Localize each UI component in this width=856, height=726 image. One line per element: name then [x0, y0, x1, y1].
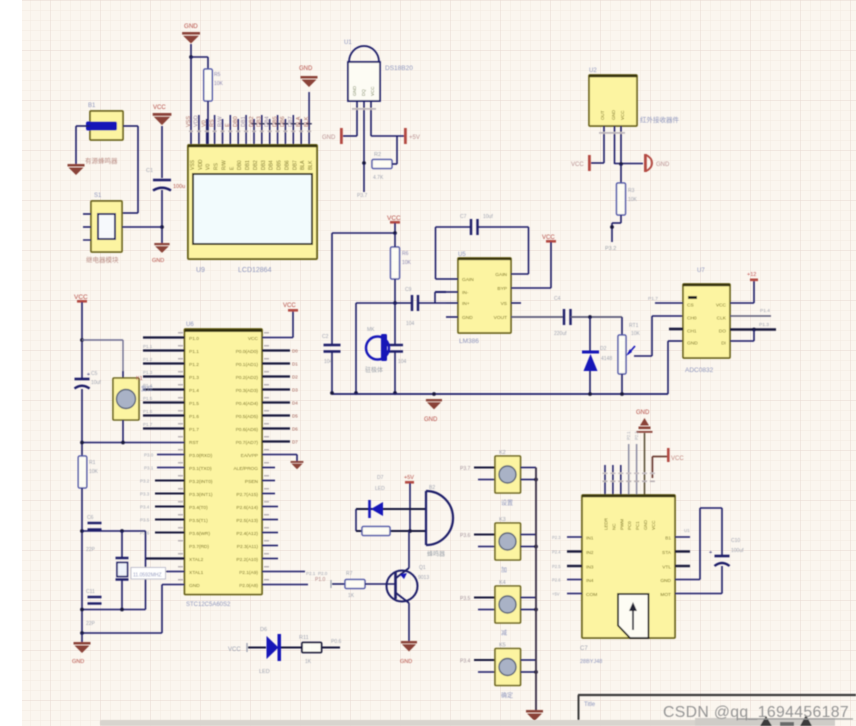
wire C10 bottom path	[721, 566, 723, 594]
svg-text:OUT: OUT	[600, 110, 605, 120]
resistor R1	[78, 456, 87, 488]
button K1 top stem	[122, 371, 124, 378]
svg-text:B2: B2	[429, 485, 435, 491]
ground top middle	[182, 32, 200, 35]
title block top line	[578, 694, 856, 696]
MCU pin numbers	[178, 332, 183, 334]
wire xtal right leg	[145, 531, 147, 610]
microphone MK1	[366, 337, 389, 360]
svg-text:DS18B20: DS18B20	[385, 65, 413, 72]
svg-text:D2: D2	[600, 346, 607, 352]
svg-text:GND: GND	[660, 578, 671, 584]
wire mic loop left	[355, 303, 357, 393]
svg-text:VCC: VCC	[248, 336, 259, 342]
svg-text:P2.2(A10): P2.2(A10)	[236, 557, 258, 563]
svg-text:E: E	[225, 123, 231, 127]
MCU U6 top edge	[185, 329, 263, 332]
svg-text:BLA: BLA	[300, 160, 306, 170]
svg-text:DB0: DB0	[233, 116, 239, 127]
capacitor C5	[75, 378, 90, 381]
DS18B20 pin number band	[352, 108, 376, 110]
svg-text:PWM: PWM	[619, 519, 624, 530]
svg-text:GND: GND	[184, 23, 198, 30]
wire MCU VCC pin	[262, 337, 293, 339]
button K2 wires right	[521, 467, 537, 469]
svg-text:P1.5: P1.5	[143, 396, 153, 401]
svg-text:DO: DO	[719, 329, 726, 335]
svg-text:NC: NC	[611, 523, 616, 530]
junction K5	[534, 670, 538, 674]
svg-text:GND: GND	[189, 583, 200, 589]
svg-text:1K: 1K	[305, 659, 312, 665]
title block left line	[578, 695, 580, 726]
wire opamp pin2 stub	[435, 291, 446, 293]
button K1 cap	[117, 390, 136, 409]
svg-text:P3.6: P3.6	[460, 533, 471, 539]
svg-text:EA/VPP: EA/VPP	[241, 453, 258, 459]
svg-text:P3.4: P3.4	[460, 659, 471, 665]
LCD screen	[193, 174, 312, 244]
wire MCU XTAL1 stub	[165, 571, 185, 573]
svg-text:C6: C6	[87, 515, 94, 521]
svg-text:P3.1(TXD): P3.1(TXD)	[189, 466, 212, 472]
svg-text:P2.0(A8): P2.0(A8)	[239, 583, 258, 589]
svg-text:VCC: VCC	[571, 162, 584, 168]
wire VCC stem mic	[394, 223, 396, 233]
wire VCC to U2	[591, 162, 604, 164]
svg-text:R5: R5	[214, 72, 221, 78]
svg-text:R7: R7	[346, 571, 353, 577]
svg-text:GND: GND	[352, 85, 357, 96]
ground arrow over C1	[153, 113, 172, 116]
svg-text:P1.7: P1.7	[189, 427, 199, 433]
svg-text:LCD12864: LCD12864	[238, 267, 272, 274]
power bar VCC stepper	[667, 448, 670, 462]
svg-text:IN4: IN4	[586, 578, 594, 584]
svg-text:P3.7(RD): P3.7(RD)	[189, 544, 209, 550]
svg-text:CH1: CH1	[687, 329, 697, 335]
diode D7 led	[368, 500, 371, 518]
wire MCU GND pin	[162, 584, 185, 586]
svg-text:P2.4(A12): P2.4(A12)	[236, 531, 258, 537]
wire res row	[356, 530, 426, 532]
wire ADC DI	[730, 340, 754, 342]
svg-text:IN2: IN2	[586, 550, 594, 556]
junction R6 top	[393, 231, 397, 235]
svg-text:P1.7: P1.7	[143, 422, 153, 427]
op-amp left pin stubs	[446, 278, 458, 280]
svg-text:VCC: VCC	[716, 303, 727, 309]
svg-text:VCC: VCC	[153, 105, 166, 111]
svg-text:22P: 22P	[86, 621, 96, 627]
svg-text:R11: R11	[299, 635, 309, 641]
svg-text:P3.4(T0): P3.4(T0)	[189, 505, 208, 511]
wire MCU P3 group	[155, 479, 185, 481]
svg-text:B1: B1	[665, 536, 671, 542]
wire R6 stems	[394, 233, 396, 247]
junction xtal top	[80, 529, 84, 533]
wire buzzer left pin	[76, 125, 90, 127]
svg-text:DB6: DB6	[280, 116, 286, 127]
stepper left pin wires	[567, 536, 582, 538]
svg-text:VOUT: VOUT	[494, 315, 507, 321]
svg-text:P3.2: P3.2	[605, 246, 616, 252]
svg-text:P1.5: P1.5	[189, 401, 199, 407]
power bar GND left	[340, 128, 343, 144]
svg-text:确定: 确定	[501, 692, 513, 700]
svg-text:CH0: CH0	[687, 316, 697, 322]
svg-text:减: 减	[501, 629, 507, 637]
svg-text:VCC: VCC	[651, 520, 656, 530]
svg-text:DB5: DB5	[272, 116, 278, 127]
power bar VCC mic	[390, 221, 400, 224]
wire crystal bottom	[121, 580, 123, 610]
capacitor C9 series	[411, 295, 413, 311]
wire R3 bottom	[620, 215, 622, 223]
wire DS18B20 vcc	[371, 135, 404, 137]
ADC U7 body	[683, 284, 730, 358]
svg-text:P1.6: P1.6	[189, 414, 199, 420]
label box 11.0592MHZ	[131, 568, 166, 580]
stepper U8 top edge	[582, 495, 675, 497]
svg-text:COM: COM	[586, 592, 597, 598]
buzzer LS1	[425, 491, 427, 545]
svg-text:Q1: Q1	[419, 565, 426, 571]
ground left bottom	[74, 642, 91, 645]
svg-text:100u: 100u	[173, 184, 185, 190]
svg-text:P3.0: P3.0	[144, 453, 154, 458]
wire RT1 to ADC	[634, 355, 652, 357]
svg-text:LED: LED	[375, 486, 385, 492]
wire +5V stem	[409, 483, 411, 531]
MCU U6 body	[185, 329, 263, 595]
junction xtal mid	[120, 529, 124, 533]
svg-text:加: 加	[501, 566, 507, 574]
junction ADC DO	[752, 328, 756, 332]
svg-text:DB1: DB1	[241, 116, 247, 127]
svg-text:10uf: 10uf	[483, 214, 493, 220]
capacitor C2	[324, 344, 341, 346]
svg-text:U2: U2	[589, 68, 597, 74]
wire ADC VCC	[730, 302, 754, 304]
thermistor RT1	[618, 335, 626, 374]
ADC U7 top edge	[683, 284, 730, 286]
button K5 body	[495, 649, 521, 686]
wire reset rail top	[81, 302, 83, 378]
junction R5 top	[189, 55, 193, 59]
wire to K1	[82, 339, 123, 341]
U2 top edge	[589, 75, 637, 77]
diode D6	[267, 636, 279, 659]
wire mic right leg	[394, 303, 396, 345]
svg-text:4148: 4148	[601, 356, 612, 362]
svg-text:P2.6: P2.6	[552, 578, 561, 583]
svg-text:DB0: DB0	[237, 160, 243, 170]
wire R7 to base	[365, 583, 395, 585]
wire to R3	[620, 164, 622, 183]
junction xtal bottom	[80, 608, 84, 612]
LCD pin tick marks	[251, 123, 257, 125]
junction K2	[534, 478, 538, 482]
svg-text:U1: U1	[344, 40, 352, 46]
op-amp right pin stubs	[511, 302, 521, 304]
svg-text:ALE/PROG: ALE/PROG	[233, 466, 258, 472]
junction mic right bottom	[393, 391, 397, 395]
wire mic loop top	[356, 302, 395, 304]
svg-text:P2.0: P2.0	[318, 571, 328, 576]
svg-text:GND: GND	[636, 410, 650, 416]
bottom right gray band	[695, 718, 835, 726]
svg-text:S1: S1	[94, 193, 102, 199]
wire VOUT	[511, 316, 563, 318]
button K2 body	[495, 456, 521, 493]
button K3 cap	[499, 533, 516, 550]
svg-text:红外接收器件: 红外接收器件	[640, 115, 680, 124]
svg-text:P1.3: P1.3	[759, 322, 769, 328]
svg-text:CSDN @qq_1694456187: CSDN @qq_1694456187	[663, 704, 849, 721]
wire top rail mic	[332, 232, 395, 234]
svg-text:MK: MK	[367, 327, 375, 333]
svg-text:D7: D7	[377, 475, 384, 481]
svg-text:U5: U5	[458, 252, 466, 258]
junction K3	[534, 545, 538, 549]
wire buttons common	[535, 468, 537, 711]
svg-text:D1: D1	[292, 362, 298, 367]
LCD U9 top edge	[188, 145, 317, 148]
scrollbar	[100, 720, 698, 726]
svg-text:P1.1: P1.1	[189, 349, 199, 355]
svg-text:BLA: BLA	[296, 116, 302, 127]
svg-text:DB6: DB6	[284, 160, 290, 170]
wire D6 to R11	[281, 647, 302, 649]
LCD pin wires	[198, 115, 200, 145]
svg-text:STA: STA	[662, 550, 672, 556]
wire led left leg	[355, 509, 357, 531]
wire mic node to C9	[395, 302, 411, 304]
junction +5V node	[408, 529, 412, 533]
svg-text:100uf: 100uf	[731, 548, 744, 554]
svg-text:GND: GND	[643, 519, 648, 530]
wire ADC CLK	[730, 315, 771, 317]
wire MCU XTAL2	[146, 557, 185, 559]
wire R5 to LCD	[207, 101, 209, 145]
wire DS18B20 gnd	[343, 135, 357, 137]
diode D2 wire bottom	[589, 371, 591, 394]
svg-text:P2.1(A9): P2.1(A9)	[239, 570, 258, 576]
svg-text:DB3: DB3	[257, 116, 263, 127]
ground buttons	[526, 710, 543, 713]
button K3 wire left	[474, 534, 495, 536]
wire VS	[550, 242, 552, 288]
svg-text:P3.4: P3.4	[140, 505, 150, 510]
junction rail 4	[620, 392, 624, 396]
wire MCU ALE PSEN stubs	[262, 467, 275, 469]
wire to R7	[332, 583, 345, 585]
op-amp U5 top edge	[458, 258, 511, 260]
svg-text:XTAL1: XTAL1	[189, 570, 204, 576]
ground MCU EA	[291, 461, 304, 463]
svg-text:D3: D3	[292, 388, 298, 393]
junction K1 RST	[121, 441, 125, 445]
svg-text:28BYJ48: 28BYJ48	[580, 659, 602, 665]
svg-text:K3: K3	[499, 517, 506, 523]
svg-text:+5V: +5V	[552, 592, 560, 597]
svg-text:K4: K4	[499, 580, 506, 586]
junction mic left bottom	[354, 391, 358, 395]
svg-text:VCC: VCC	[387, 215, 401, 222]
svg-text:C2: C2	[322, 334, 329, 340]
svg-text:R6: R6	[402, 251, 409, 257]
capacitor C4	[563, 309, 565, 325]
wire left rail mic	[331, 233, 333, 345]
svg-text:R2: R2	[374, 152, 381, 158]
svg-text:ADC0832: ADC0832	[685, 367, 714, 374]
LCD U9 body	[188, 145, 317, 259]
junction K4	[534, 608, 538, 612]
svg-text:DB2: DB2	[249, 116, 255, 127]
component S1 body	[91, 201, 122, 252]
svg-text:P3.6(WR): P3.6(WR)	[189, 531, 210, 537]
stepper rotor symbol	[618, 594, 649, 638]
svg-text:K5: K5	[499, 643, 506, 649]
buzzer B1 body	[90, 111, 123, 140]
svg-text:DQ: DQ	[361, 89, 366, 96]
svg-text:P0.6: P0.6	[331, 639, 342, 645]
svg-text:DB7: DB7	[292, 160, 298, 170]
svg-text:C10: C10	[731, 538, 740, 544]
power bar VCC reset	[77, 300, 87, 303]
svg-text:VCC: VCC	[370, 86, 375, 96]
junction rail 2	[432, 392, 436, 396]
svg-text:4.7K: 4.7K	[373, 175, 384, 181]
wire feedback top left	[436, 226, 471, 228]
svg-text:B1: B1	[88, 103, 96, 109]
svg-text:VCC: VCC	[620, 110, 625, 120]
svg-text:P0.3(AD3): P0.3(AD3)	[236, 388, 259, 394]
svg-text:VSS: VSS	[186, 116, 192, 127]
svg-text:+12: +12	[747, 272, 756, 278]
svg-text:PC0: PC0	[627, 521, 632, 530]
svg-text:Title: Title	[584, 702, 596, 708]
wire gnd stem left	[81, 633, 83, 642]
capacitor C8	[387, 344, 403, 346]
svg-text:P1.3: P1.3	[189, 375, 199, 381]
svg-text:9013: 9013	[418, 575, 429, 581]
svg-text:GND: GND	[322, 135, 336, 141]
capacitor C7	[470, 219, 472, 235]
svg-text:10K: 10K	[402, 260, 412, 266]
svg-text:P3.7: P3.7	[357, 193, 368, 199]
junction xtal bottom2	[120, 608, 124, 612]
ADC notch mark	[688, 296, 697, 299]
capacitor C1	[153, 179, 171, 182]
svg-text:LED: LED	[259, 669, 270, 675]
stepper right pin wires	[675, 536, 690, 538]
svg-text:U7: U7	[697, 268, 705, 274]
wire MCU P30 P31	[157, 454, 185, 456]
wire emitter down	[408, 603, 410, 641]
power bar +12	[750, 279, 758, 282]
svg-text:GND: GND	[72, 659, 84, 665]
junction RST	[80, 441, 84, 445]
transistor Q1	[387, 571, 418, 602]
ground rail arrow	[426, 399, 442, 401]
svg-text:P1.7: P1.7	[648, 296, 658, 302]
button K4 cap	[499, 596, 516, 613]
resistor R8	[362, 527, 390, 536]
thermistor RT1 wire bottom	[621, 374, 623, 394]
DS18B20 U1 arc	[349, 46, 379, 62]
svg-text:K2: K2	[499, 450, 506, 456]
svg-text:+: +	[709, 550, 712, 556]
capacitor C6	[88, 522, 102, 524]
svg-text:P0.2(AD2): P0.2(AD2)	[236, 375, 259, 381]
DS18B20 pin wires	[356, 101, 358, 136]
svg-text:P3.5(T1): P3.5(T1)	[189, 518, 208, 524]
wire ADC CH1 thick	[669, 328, 683, 331]
svg-text:U1: U1	[684, 528, 690, 533]
bottom cut glyph 2	[800, 715, 812, 726]
svg-text:VCC: VCC	[671, 456, 684, 462]
svg-text:设置: 设置	[501, 499, 513, 507]
svg-text:GND: GND	[462, 315, 473, 321]
svg-text:P2.1: P2.1	[306, 571, 316, 576]
wire C1 bottom	[161, 190, 163, 243]
junction gnd left	[80, 631, 84, 635]
svg-text:C7: C7	[580, 646, 588, 652]
svg-text:D5: D5	[292, 414, 298, 419]
wire MCU P1 bus	[143, 336, 185, 338]
wire MCU P21	[262, 571, 305, 573]
junction rail 3	[588, 392, 592, 396]
svg-text:VDD: VDD	[198, 159, 204, 170]
svg-text:GAIN: GAIN	[495, 272, 507, 278]
svg-text:P0.4(AD4): P0.4(AD4)	[236, 401, 259, 407]
watermark underline	[737, 718, 853, 720]
svg-text:P1.4: P1.4	[189, 388, 199, 394]
svg-text:P2.5: P2.5	[552, 564, 561, 569]
svg-text:P2.6(A14): P2.6(A14)	[236, 505, 258, 511]
svg-text:1K: 1K	[348, 593, 355, 599]
svg-text:P3.3: P3.3	[140, 492, 150, 497]
svg-text:PSEN: PSEN	[245, 479, 259, 485]
svg-text:P1.0: P1.0	[189, 336, 199, 342]
svg-text:+5V: +5V	[404, 475, 414, 481]
svg-text:P2.4: P2.4	[552, 550, 561, 555]
svg-text:LM386: LM386	[459, 338, 479, 345]
wire to R5	[191, 56, 208, 58]
svg-text:R/W: R/W	[222, 160, 228, 170]
button K1 body	[113, 378, 139, 420]
svg-text:DB7: DB7	[288, 116, 294, 127]
svg-text:CS: CS	[687, 303, 694, 309]
wire stepper vcc elbow	[651, 457, 653, 479]
svg-text:VCC: VCC	[283, 303, 296, 309]
U2 pin number band	[599, 132, 625, 134]
thermistor RT1 arrow	[628, 346, 635, 354]
svg-text:D0: D0	[292, 349, 298, 354]
junction reset top	[80, 338, 84, 342]
capacitor C11	[88, 596, 102, 598]
wire C1 top	[161, 126, 163, 178]
svg-text:P2.7(A15): P2.7(A15)	[236, 492, 258, 498]
wire reset rail mid	[81, 389, 83, 456]
svg-text:GND: GND	[687, 341, 698, 347]
svg-text:C7: C7	[460, 214, 467, 220]
wire MCU RST	[82, 442, 185, 444]
svg-text:BLK: BLK	[308, 160, 314, 170]
svg-text:MOT: MOT	[660, 592, 671, 598]
